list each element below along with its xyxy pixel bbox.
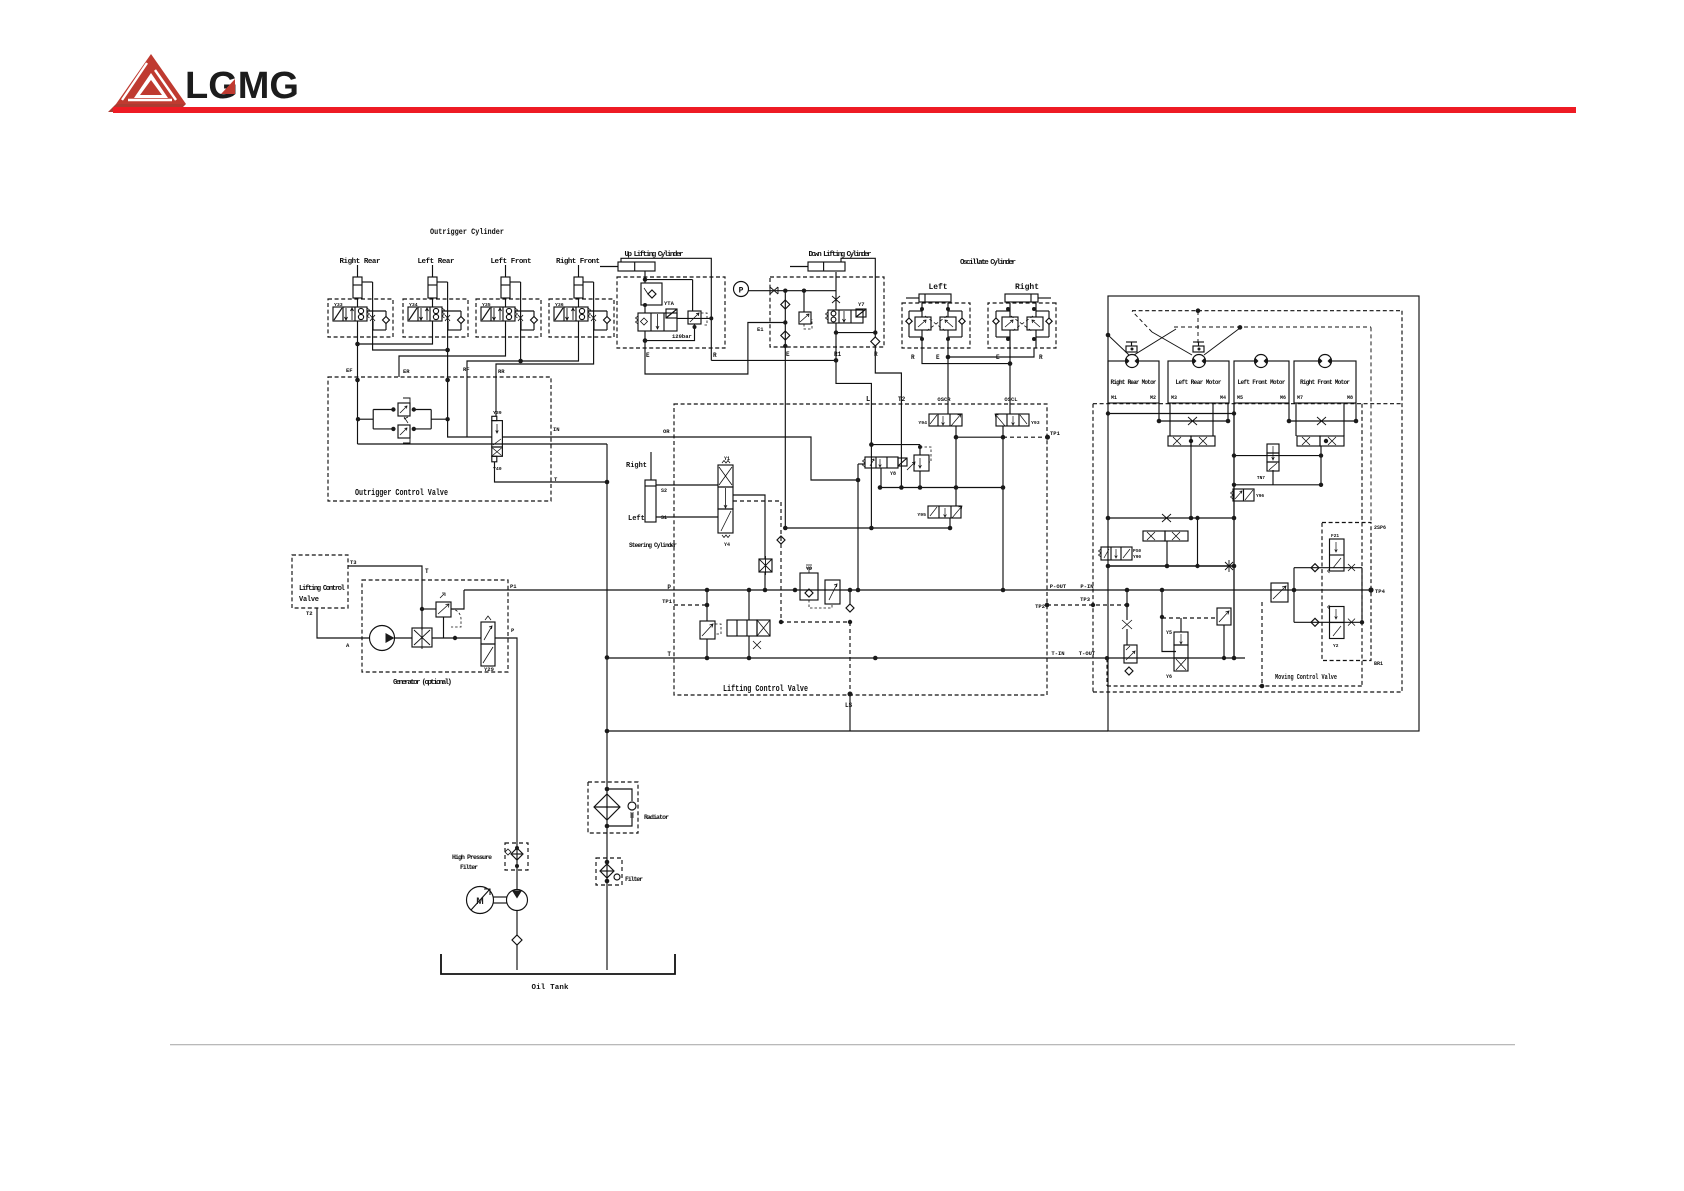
svg-text:Right Front Motor: Right Front Motor [1300,379,1350,386]
svg-text:Y35: Y35 [482,302,491,308]
svg-text:Y95: Y95 [917,512,926,518]
svg-text:Oil Tank: Oil Tank [532,984,569,992]
svg-text:Y9: Y9 [806,566,812,572]
svg-text:Right Rear: Right Rear [340,258,381,266]
svg-text:Valve: Valve [299,596,319,604]
svg-text:Right: Right [1015,283,1039,292]
svg-text:T: T [667,651,671,658]
svg-text:Y96: Y96 [1256,493,1264,499]
svg-text:Generator (optional): Generator (optional) [393,679,452,687]
svg-text:Right Rear Motor: Right Rear Motor [1111,379,1157,386]
svg-text:M6: M6 [1280,395,1286,401]
svg-text:L: L [866,396,870,404]
svg-text:M1: M1 [1111,395,1117,401]
svg-text:Y6: Y6 [1166,674,1172,680]
svg-text:Oscillate Cylinder: Oscillate Cylinder [960,259,1016,267]
svg-text:E: E [646,352,650,359]
svg-text:Y39: Y39 [493,410,502,416]
svg-text:P-IN: P-IN [1080,583,1093,590]
svg-text:RF: RF [463,366,470,373]
svg-text:TN7: TN7 [1257,475,1265,481]
svg-text:T3: T3 [350,559,357,566]
svg-text:Moving Control Valve: Moving Control Valve [1275,674,1337,682]
svg-text:PS0: PS0 [1133,548,1141,554]
svg-text:S2: S2 [661,488,667,494]
svg-text:120bar: 120bar [672,333,692,340]
svg-text:R: R [874,351,878,358]
svg-text:R: R [1039,354,1043,361]
svg-text:Right Front: Right Front [556,258,600,266]
svg-text:High Pressure: High Pressure [452,854,492,861]
svg-text:M7: M7 [1297,395,1303,401]
svg-text:Y8: Y8 [890,471,896,477]
svg-text:P1: P1 [510,583,517,590]
svg-text:M3: M3 [1171,395,1177,401]
svg-text:Y4: Y4 [724,542,730,548]
svg-text:Filter: Filter [460,864,478,871]
svg-text:Left Rear Motor: Left Rear Motor [1176,379,1222,386]
svg-text:E: E [936,354,940,361]
svg-text:LGMG: LGMG [185,65,299,107]
svg-text:Left: Left [929,283,948,292]
svg-text:Lifting Control Valve: Lifting Control Valve [723,684,808,694]
svg-text:T: T [425,568,429,575]
svg-text:Left Front: Left Front [491,258,532,266]
svg-text:Y7: Y7 [858,301,865,308]
svg-text:Outrigger Cylinder: Outrigger Cylinder [430,228,504,237]
svg-text:P: P [739,287,744,296]
svg-text:LS: LS [845,702,853,709]
svg-text:Y5: Y5 [1166,630,1172,636]
svg-text:R: R [713,352,717,359]
svg-text:R1: R1 [834,351,842,358]
svg-text:YTA: YTA [664,300,675,307]
svg-text:E: E [786,351,790,358]
svg-text:M4: M4 [1220,395,1226,401]
svg-text:BR1: BR1 [1374,661,1383,667]
svg-text:T2: T2 [306,610,313,617]
svg-text:Y90: Y90 [1133,554,1141,560]
svg-text:Y93: Y93 [1031,420,1040,426]
svg-text:Y2: Y2 [1333,643,1339,649]
svg-text:Lifting Control: Lifting Control [299,585,345,593]
svg-text:Y34: Y34 [409,302,418,308]
svg-text:IN: IN [553,426,560,433]
svg-text:Filter: Filter [625,876,643,883]
svg-text:2SP6: 2SP6 [1374,525,1386,531]
svg-text:M2: M2 [1150,395,1156,401]
svg-text:T2: T2 [898,396,906,403]
svg-text:E1: E1 [757,326,764,333]
svg-text:M5: M5 [1237,395,1243,401]
svg-text:OSCL: OSCL [1004,396,1018,403]
svg-text:Right: Right [626,462,647,470]
svg-text:Left: Left [628,515,645,523]
svg-text:TP4: TP4 [1375,588,1386,595]
svg-text:Y94: Y94 [918,420,927,426]
svg-text:M8: M8 [1347,395,1353,401]
svg-text:RR: RR [498,368,505,375]
svg-text:T-IN: T-IN [1051,650,1064,657]
svg-text:Y33: Y33 [334,302,343,308]
svg-text:P: P [667,584,671,591]
svg-text:Y29: Y29 [484,666,494,673]
svg-text:Radiator: Radiator [644,814,669,821]
svg-text:TP1: TP1 [662,598,673,605]
svg-text:S1: S1 [661,515,667,521]
svg-text:P-OUT: P-OUT [1050,583,1067,590]
svg-text:OR: OR [663,428,670,435]
svg-text:TP1: TP1 [1050,430,1061,437]
svg-text:OSCR: OSCR [937,396,951,403]
svg-text:ER: ER [403,368,410,375]
svg-text:TP3: TP3 [1080,596,1091,603]
svg-text:TP2: TP2 [1035,603,1045,610]
svg-text:EF: EF [346,367,353,374]
svg-text:Y36: Y36 [555,302,564,308]
svg-text:Y1: Y1 [724,456,730,462]
svg-text:F21: F21 [1331,533,1339,539]
svg-text:Left Rear: Left Rear [418,258,455,266]
svg-text:Steering Cylinder: Steering Cylinder [629,542,677,549]
svg-text:Left Front Motor: Left Front Motor [1238,379,1286,386]
svg-text:R: R [911,354,915,361]
svg-text:Outrigger Control Valve: Outrigger Control Valve [355,488,448,498]
